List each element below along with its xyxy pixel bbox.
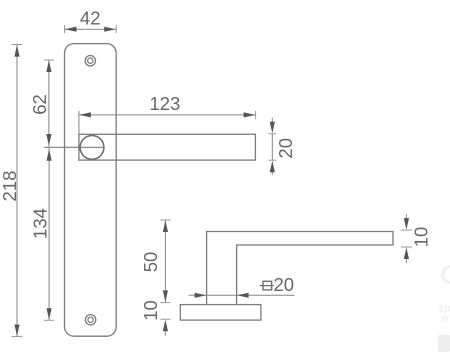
dimension 134 (handle axis to bottom screw) bbox=[29, 148, 54, 320]
svg-text:42: 42 bbox=[80, 7, 101, 28]
backplate outline (front view) bbox=[65, 44, 117, 337]
svg-text:218: 218 bbox=[0, 171, 20, 202]
dimension 10 (rosette thickness, side view) bbox=[140, 300, 171, 335]
side view rosette plate bbox=[180, 305, 261, 321]
dimension 20 (lever section height) bbox=[268, 118, 296, 175]
svg-text:10: 10 bbox=[140, 300, 161, 321]
svg-text:w: w bbox=[440, 313, 449, 324]
watermark text fragment bbox=[438, 303, 450, 324]
side view lever outer contour bbox=[207, 232, 393, 305]
dimension 42 (plate width) bbox=[65, 7, 117, 33]
svg-text:62: 62 bbox=[29, 94, 50, 115]
lever handle bar (front view) bbox=[79, 134, 256, 160]
handle centerline bbox=[44, 146, 103, 148]
watermark block (bottom right corner) bbox=[438, 335, 450, 352]
handle hub circle bbox=[80, 136, 104, 160]
top screw hole bbox=[85, 56, 95, 66]
bottom screw hole bbox=[85, 315, 95, 325]
svg-text:134: 134 bbox=[29, 208, 50, 239]
dimension 10 (grip thickness, side view right) bbox=[401, 214, 431, 263]
svg-text:123: 123 bbox=[149, 93, 180, 114]
dimension 50 (neck height, side view) bbox=[140, 220, 171, 303]
dimension 62 (top screw to handle axis) bbox=[29, 60, 54, 147]
svg-text:20: 20 bbox=[275, 138, 296, 159]
square symbol bbox=[263, 281, 272, 290]
watermark logo fragment (right edge) bbox=[443, 267, 450, 283]
dimension square-20 (spindle/neck width, side view) bbox=[189, 274, 295, 298]
svg-text:10: 10 bbox=[410, 227, 431, 248]
svg-text:20: 20 bbox=[274, 274, 295, 295]
dimension 123 (lever length) bbox=[79, 93, 256, 134]
dimension 218 (plate height) bbox=[0, 45, 23, 337]
svg-text:50: 50 bbox=[140, 252, 161, 273]
